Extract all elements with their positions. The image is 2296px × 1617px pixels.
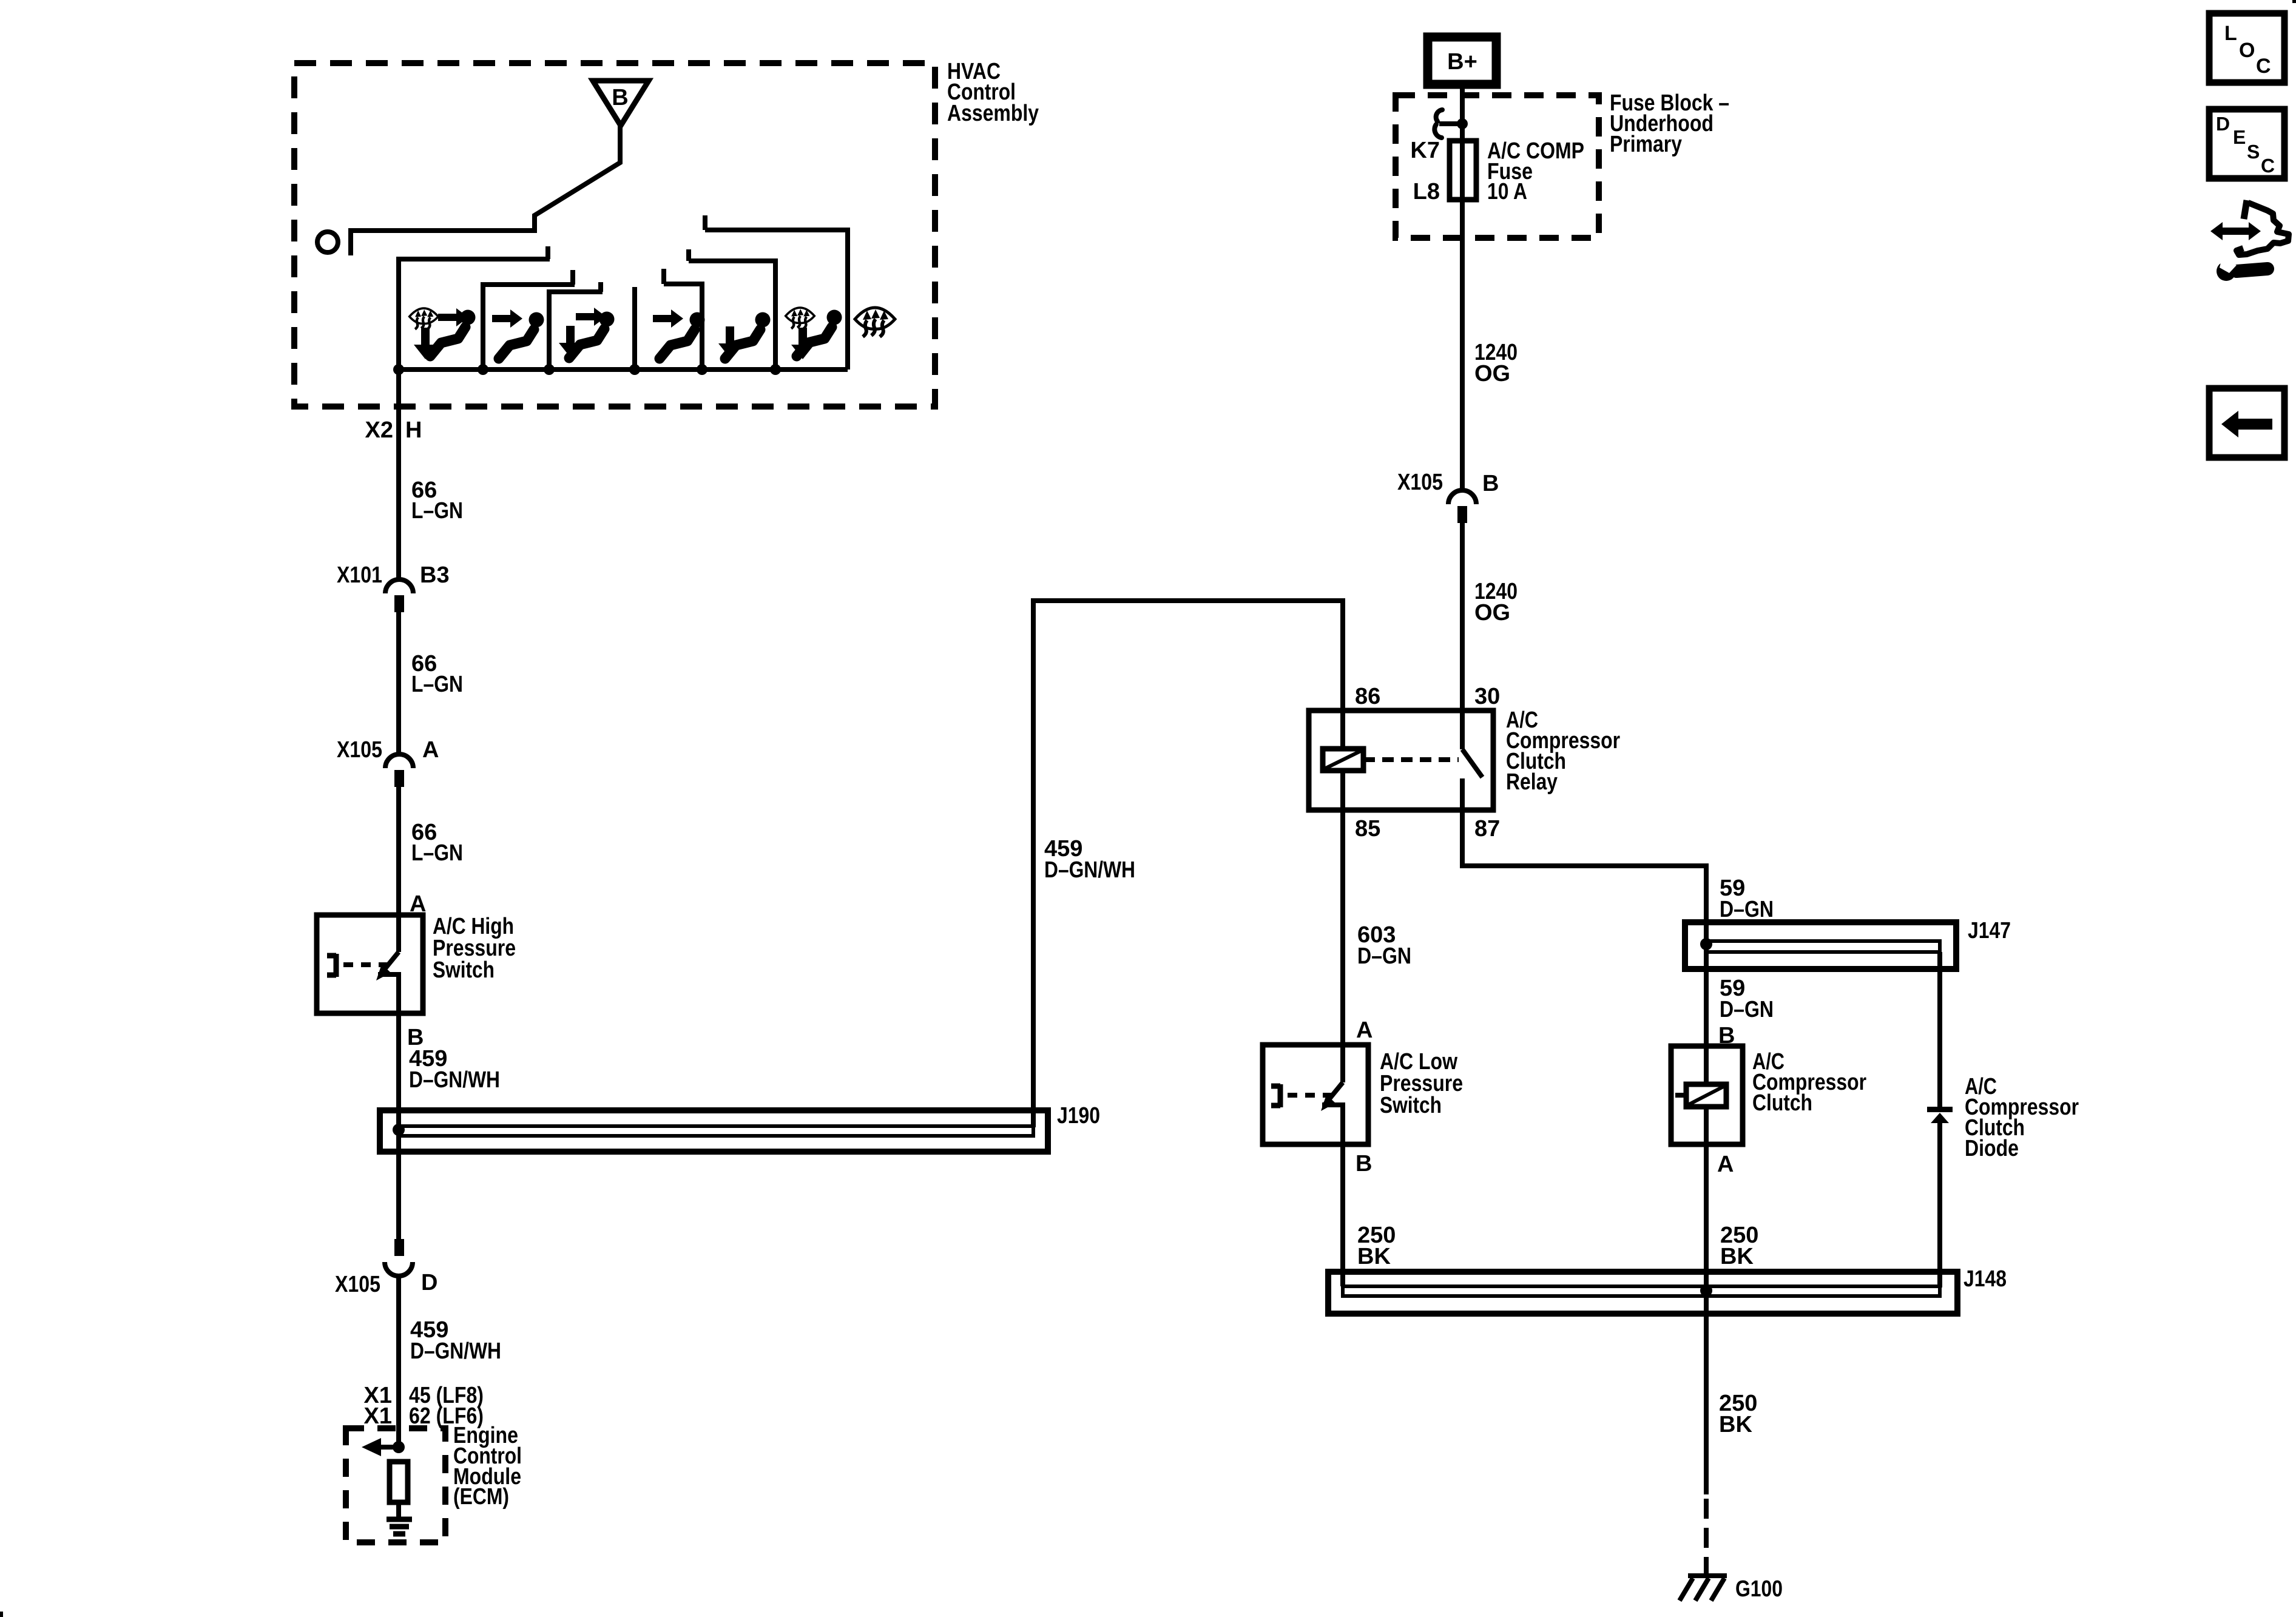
svg-text:B: B	[1482, 471, 1499, 496]
svg-text:D–GN/WH: D–GN/WH	[409, 1067, 500, 1093]
wire X2-H from HVAC to X101	[396, 370, 401, 579]
ECM ground	[387, 1519, 412, 1534]
mode switch position 2 contact	[483, 270, 575, 370]
mode switch position 6 contact	[689, 249, 775, 370]
svg-text:G100: G100	[1735, 1576, 1783, 1602]
svg-text:L: L	[2224, 22, 2237, 45]
svg-text:B: B	[612, 85, 628, 110]
svg-text:Assembly: Assembly	[947, 101, 1039, 126]
svg-text:X101: X101	[337, 562, 382, 588]
switch common bus wire	[399, 367, 848, 372]
svg-text:B+: B+	[1447, 49, 1477, 75]
svg-text:86: 86	[1355, 684, 1380, 709]
svg-text:X105: X105	[335, 1272, 380, 1297]
svg-text:BK: BK	[1720, 1244, 1754, 1269]
svg-text:O: O	[2239, 39, 2255, 62]
svg-text:87: 87	[1474, 816, 1500, 842]
svg-text:85: 85	[1355, 816, 1380, 842]
mode icon 7: rear defrost	[855, 308, 895, 337]
svg-text:S: S	[2247, 141, 2260, 163]
DESC icon box	[2209, 109, 2284, 178]
svg-text:J190: J190	[1057, 1103, 1100, 1129]
bus junction dots	[393, 364, 404, 375]
svg-text:10 A: 10 A	[1487, 179, 1527, 204]
back arrow icon box	[2209, 388, 2284, 457]
svg-text:D–GN/WH: D–GN/WH	[1044, 857, 1135, 883]
wire 66 L-GN to high pressure switch	[396, 787, 401, 952]
svg-text:X105: X105	[1397, 470, 1443, 495]
fuse A/C COMP 10A	[1450, 141, 1476, 200]
mode icon 6: defrost + foot airflow person	[786, 308, 842, 359]
splice J147	[1685, 922, 1956, 969]
svg-text:(ECM): (ECM)	[453, 1484, 509, 1510]
mode switch position 4 contact	[632, 287, 637, 370]
svg-text:B3: B3	[420, 562, 450, 588]
svg-text:L8: L8	[1413, 179, 1440, 204]
page corner speck bottom left	[0, 1612, 3, 1617]
node B triangle (switch wiper feed)	[593, 81, 649, 126]
svg-text:D–GN: D–GN	[1357, 944, 1411, 969]
mode switch position 3 contact	[549, 282, 603, 370]
HVAC Control Assembly dashed box	[294, 63, 935, 407]
svg-text:X105: X105	[337, 737, 382, 763]
splice J190	[380, 1110, 1048, 1152]
relay contact pin 30	[1462, 749, 1482, 777]
relay coil	[1323, 749, 1363, 771]
mode icon 3: face + foot airflow person	[559, 308, 615, 358]
mode icon 5: foot airflow person	[718, 312, 771, 359]
svg-text:Primary: Primary	[1610, 132, 1682, 157]
mode switch position 7 contact	[705, 215, 848, 370]
A/C Compressor Clutch	[1671, 1046, 1743, 1144]
wire from J147 to diode	[1937, 952, 1942, 1109]
svg-text:X2: X2	[365, 417, 393, 443]
ground G100	[1680, 1576, 1727, 1601]
harness repair icon: double arrow	[2210, 200, 2289, 281]
svg-text:L–GN: L–GN	[411, 498, 463, 524]
mode icon 4: face airflow person	[653, 309, 705, 359]
connector X105 pin A	[385, 754, 413, 768]
connector X105 pin B	[1448, 490, 1476, 504]
splice J148	[1328, 1272, 1957, 1314]
svg-text:A: A	[422, 737, 439, 763]
svg-text:D–GN: D–GN	[1720, 997, 1774, 1022]
harness repair icon: connector outline	[2244, 200, 2247, 219]
LOC icon box	[2209, 13, 2284, 83]
switch common open terminal circle	[317, 232, 338, 252]
wire from B triangle to switch wiper	[351, 126, 620, 255]
svg-text:OG: OG	[1474, 600, 1510, 626]
ECM pull-up resistor	[390, 1462, 408, 1502]
wire 459 to ECM	[396, 1276, 401, 1447]
svg-text:C: C	[2256, 55, 2271, 78]
svg-text:K7: K7	[1410, 138, 1440, 163]
svg-text:L–GN: L–GN	[411, 672, 463, 697]
svg-text:H: H	[405, 417, 422, 443]
Fuse Block Underhood dashed box	[1396, 95, 1599, 238]
A/C High Pressure Switch	[317, 915, 423, 1013]
svg-text:Diode: Diode	[1965, 1136, 2019, 1161]
connector X101 pin B3	[385, 579, 413, 593]
mode switch position 5 contact	[664, 269, 702, 370]
wire 1240 OG to relay pin 30	[1460, 523, 1465, 749]
svg-text:BK: BK	[1357, 1244, 1391, 1269]
A/C Low Pressure Switch	[1263, 1045, 1368, 1144]
wire from B+ to fuse	[1460, 84, 1465, 491]
svg-text:D: D	[421, 1270, 437, 1295]
mode icon 1: defrost + face/foot airflow person	[410, 308, 476, 359]
svg-text:Relay: Relay	[1506, 769, 1558, 795]
svg-text:D–GN/WH: D–GN/WH	[410, 1338, 501, 1364]
svg-text:D–GN: D–GN	[1720, 897, 1774, 922]
svg-text:C: C	[2261, 155, 2275, 177]
svg-text:Switch: Switch	[433, 957, 495, 983]
wire 459 from J190 up to relay pin 86	[1033, 601, 1343, 1127]
svg-text:30: 30	[1474, 684, 1500, 709]
harness repair icon: wrench	[2237, 269, 2267, 271]
svg-text:J148: J148	[1963, 1266, 2007, 1292]
wire 66 L-GN to X105	[396, 612, 401, 754]
B+ battery terminal	[1428, 37, 1496, 84]
svg-text:D: D	[2216, 113, 2230, 135]
svg-text:BK: BK	[1719, 1412, 1752, 1437]
Engine Control Module dashed box	[346, 1428, 445, 1542]
svg-text:OG: OG	[1474, 361, 1510, 387]
wire 59 D-GN from J147 to clutch	[1704, 944, 1709, 1084]
A/C Compressor Clutch Relay box	[1309, 711, 1493, 810]
svg-text:Clutch: Clutch	[1752, 1090, 1812, 1116]
mode icon 2: face airflow person	[492, 309, 544, 359]
svg-text:A: A	[1356, 1018, 1373, 1043]
A/C Compressor Clutch Diode	[1927, 1107, 1953, 1112]
page corner speck top right	[2292, 0, 2296, 3]
ECM internal node with arrow	[393, 1441, 405, 1453]
svg-text:B: B	[1356, 1151, 1372, 1176]
relay coil pin 85 wire down to low pressure switch	[1340, 771, 1345, 1082]
connector X105 pin D	[394, 1239, 404, 1256]
mode switch position 1 contact	[399, 246, 550, 370]
fuse block terminal hook	[1436, 110, 1442, 121]
svg-text:J147: J147	[1968, 918, 2011, 944]
svg-text:X1: X1	[364, 1403, 392, 1429]
svg-text:E: E	[2233, 126, 2246, 148]
svg-text:A: A	[1717, 1152, 1734, 1177]
wire 250 BK to ground	[1704, 1296, 1709, 1494]
svg-text:Switch: Switch	[1380, 1093, 1442, 1118]
svg-text:L–GN: L–GN	[411, 840, 463, 866]
label HVAC Control Assembly	[947, 59, 1039, 126]
